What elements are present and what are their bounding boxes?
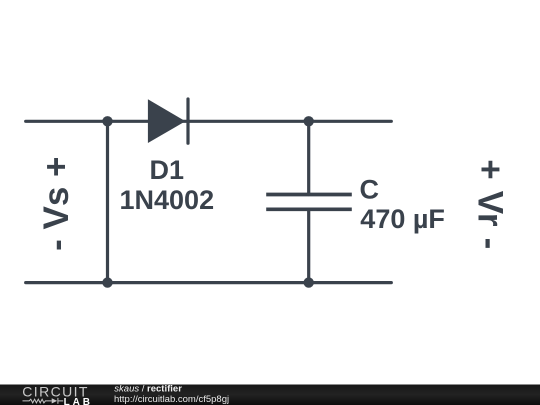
svg-text:D1: D1 [150,155,185,185]
wire capacitor top stub [307,121,310,194]
svg-text:- Vs +: - Vs + [37,157,76,251]
CircuitLab logo resistor+diode squiggle [23,398,64,404]
wire bottom rail (node Vs- to Vr-) [26,281,392,284]
svg-text:http://circuitlab.com/cf5p8gj: http://circuitlab.com/cf5p8gj [114,394,229,405]
svg-text:+ Vr -: + Vr - [471,159,510,250]
node junction dot bottom-left [102,277,112,287]
svg-text:C: C [360,175,380,205]
svg-text:skaus / rectifier: skaus / rectifier [114,383,182,394]
CircuitLab logo diode triangle [52,398,58,403]
node junction dot top-left [102,116,112,126]
wire top rail (node Vs+ to Vr+) [26,120,392,123]
diode D1 cathode bar [186,99,189,143]
svg-text:LAB: LAB [64,397,93,405]
node junction dot bottom-right [304,277,314,287]
capacitor C top plate [266,193,352,197]
svg-text:1N4002: 1N4002 [120,185,215,215]
node junction dot top-right [304,116,314,126]
capacitor C bottom plate [266,207,352,211]
wire capacitor bottom stub [307,209,310,282]
diode D1 triangle (anode) [148,99,186,143]
svg-text:470 µF: 470 µF [360,204,445,234]
wire left vertical branch [106,121,109,282]
